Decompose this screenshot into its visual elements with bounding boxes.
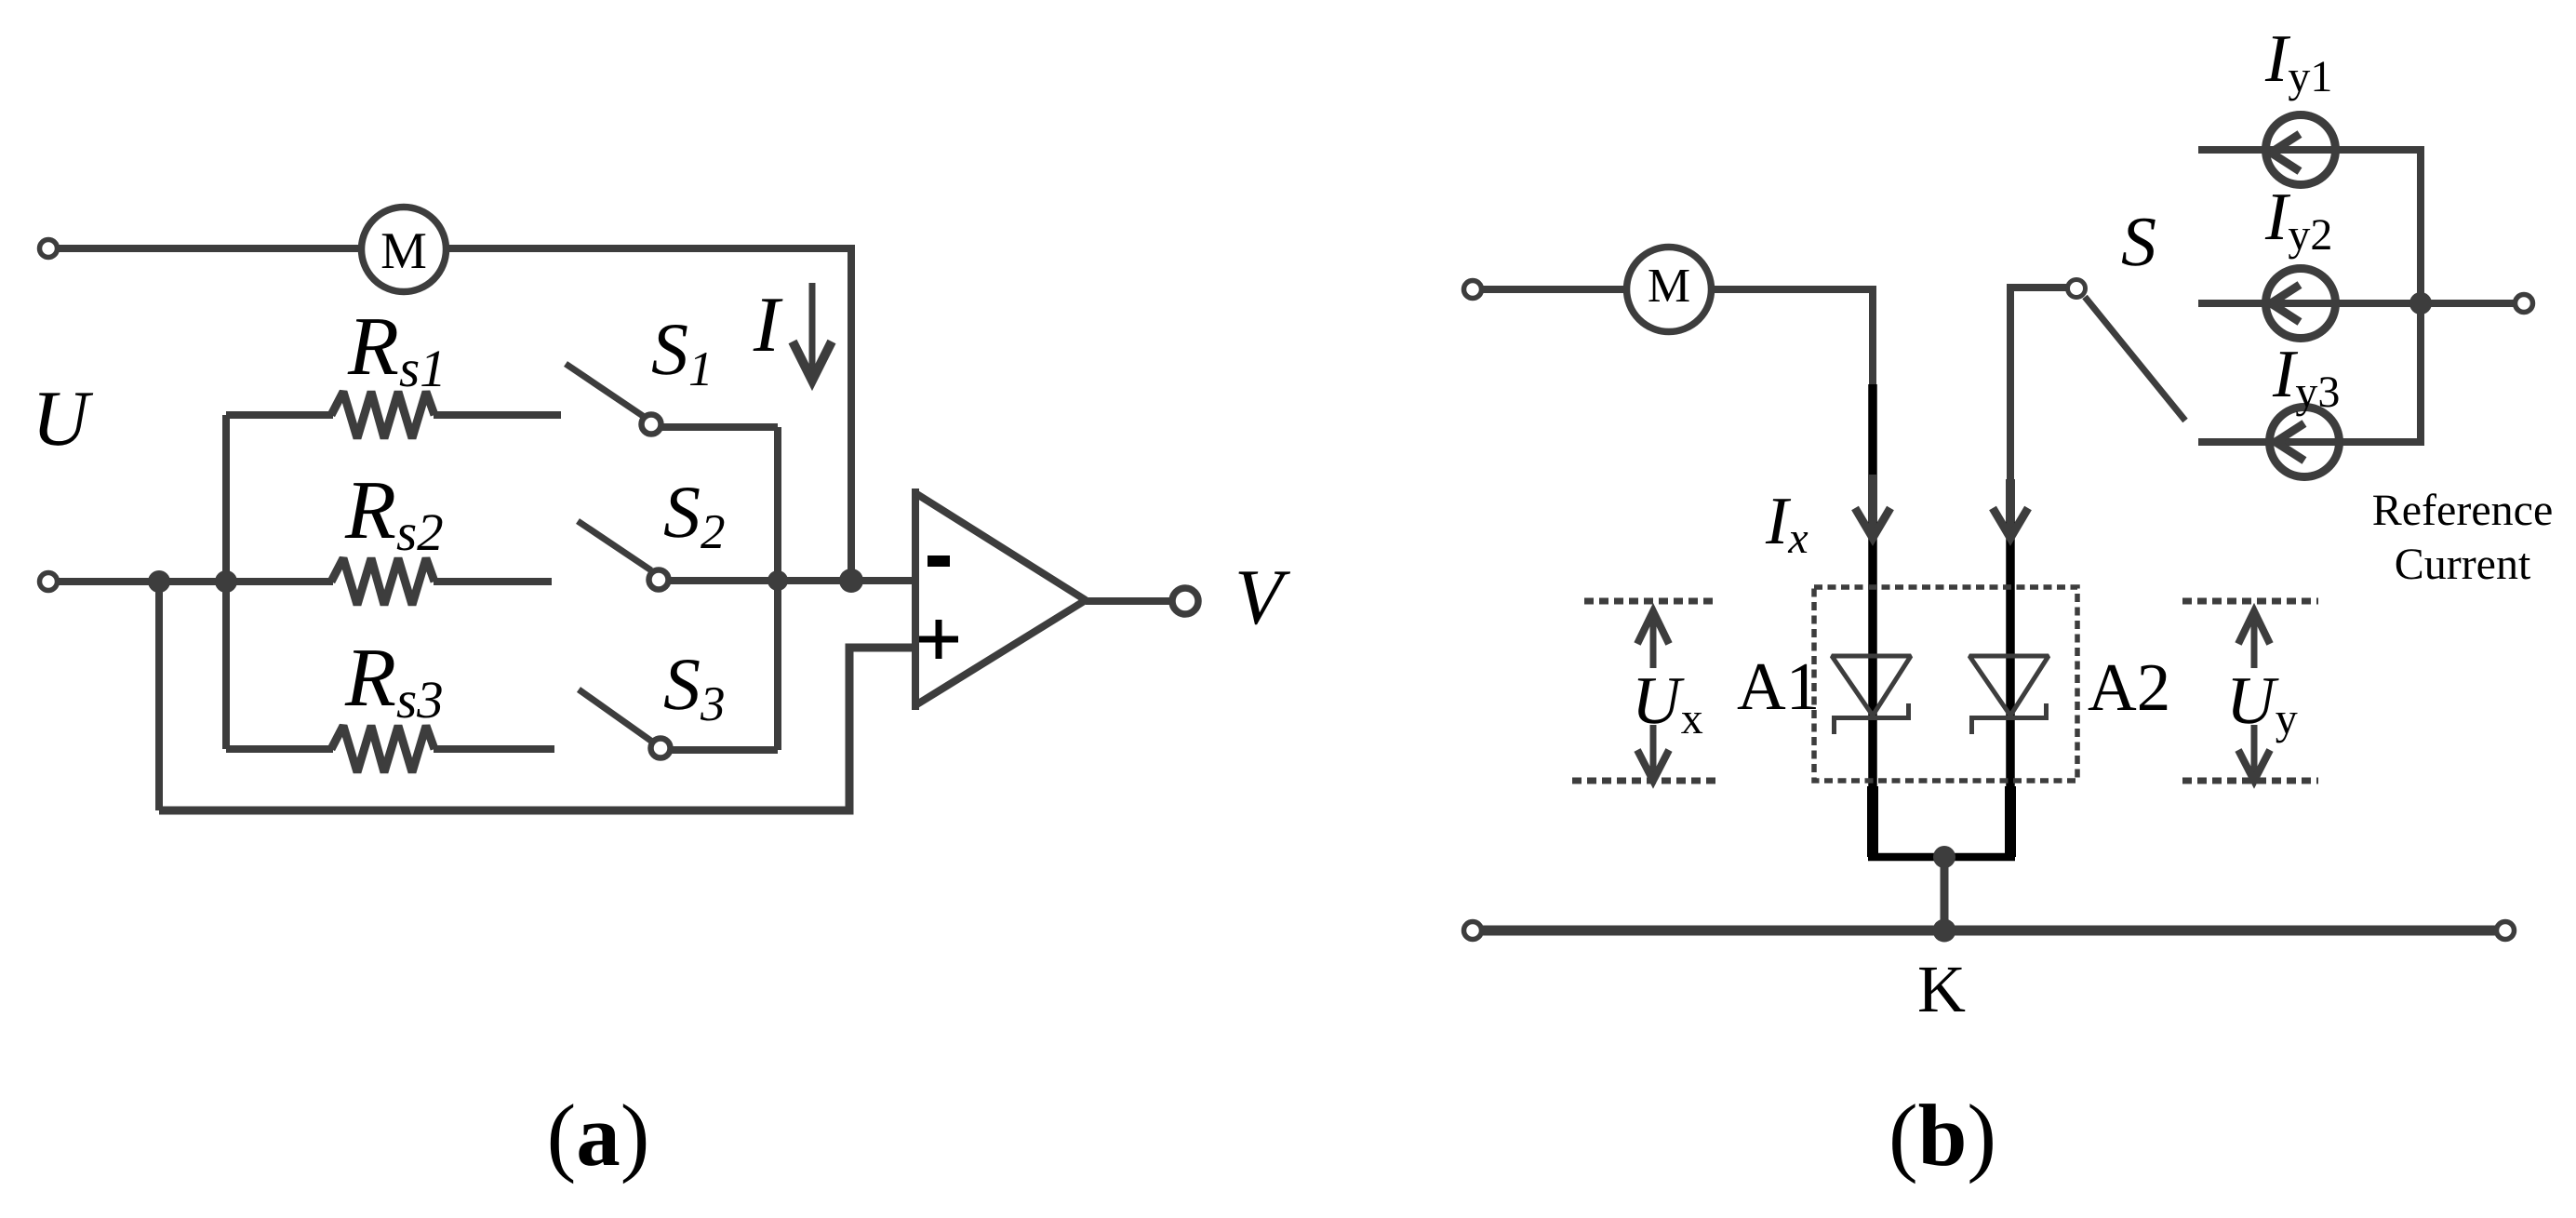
svg-text:Iy2: Iy2 — [2264, 179, 2332, 260]
svg-text:Ux: Ux — [1632, 663, 1703, 743]
svg-text:Rs2: Rs2 — [344, 464, 444, 562]
svg-text:Iy1: Iy1 — [2264, 20, 2332, 101]
svg-text:S: S — [2121, 203, 2156, 281]
svg-text:Iy3: Iy3 — [2272, 336, 2340, 417]
svg-text:V: V — [1235, 554, 1291, 641]
svg-text:U: U — [32, 375, 93, 462]
svg-text:Reference: Reference — [2372, 486, 2554, 535]
svg-text:M: M — [1648, 260, 1690, 313]
svg-text:S3: S3 — [663, 644, 726, 731]
svg-text:A2: A2 — [2088, 649, 2170, 725]
svg-text:Rs1: Rs1 — [347, 301, 447, 398]
svg-text:(a): (a) — [547, 1086, 650, 1185]
svg-text:Rs3: Rs3 — [344, 632, 444, 729]
svg-text:K: K — [1917, 952, 1966, 1026]
svg-text:S1: S1 — [651, 309, 714, 396]
svg-text:Ix: Ix — [1765, 483, 1809, 563]
svg-text:S2: S2 — [663, 472, 726, 559]
svg-text:M: M — [380, 222, 427, 280]
svg-text:(b): (b) — [1889, 1086, 1996, 1185]
svg-text:A1: A1 — [1737, 649, 1820, 724]
svg-text:Uy: Uy — [2226, 663, 2298, 743]
svg-text:Current: Current — [2395, 540, 2531, 589]
svg-text:I: I — [753, 281, 783, 368]
